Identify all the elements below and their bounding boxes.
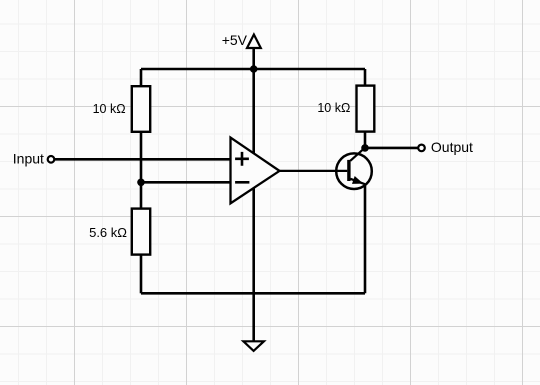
- wire inverting input: [141, 181, 231, 184]
- op-amp U1: [231, 138, 280, 204]
- wire left column to R1: [140, 69, 143, 86]
- svg-text:10 kΩ: 10 kΩ: [93, 102, 126, 116]
- wire op-amp V+: [252, 69, 255, 153]
- svg-text:Output: Output: [431, 139, 473, 155]
- wire +5V stub: [252, 48, 255, 70]
- transistor Q1: [280, 148, 372, 189]
- wire input: [54, 158, 230, 161]
- wire R2 top: [364, 69, 367, 86]
- wire op-amp output to base: [280, 170, 348, 172]
- node collector junction dot: [361, 144, 369, 152]
- wire R2 to collector node: [364, 132, 367, 148]
- wire bottom rail: [141, 292, 365, 295]
- wire op-amp V- to ground: [252, 188, 255, 341]
- wire divider chain R1 to R3: [140, 132, 143, 209]
- op-amp U1 inverting - marker: [235, 181, 249, 184]
- terminal Output: [418, 145, 425, 152]
- wire output: [365, 147, 418, 150]
- svg-text:+5V: +5V: [222, 32, 248, 48]
- transistor Q1 body circle: [336, 153, 372, 189]
- svg-text:10 kΩ: 10 kΩ: [317, 101, 350, 115]
- +5V supply symbol: [247, 35, 261, 49]
- transistor Q1 collector lead: [350, 148, 364, 161]
- wire emitter column: [364, 184, 367, 293]
- wire R3 to bottom rail: [140, 255, 143, 294]
- node +5V junction dot: [250, 65, 258, 73]
- ground: [243, 341, 264, 351]
- op-amp U1 triangle body: [231, 138, 280, 204]
- node inverting junction dot: [137, 179, 145, 187]
- resistor R3 5.6k: [132, 209, 150, 255]
- svg-text:5.6 kΩ: 5.6 kΩ: [89, 225, 127, 240]
- terminal Input: [48, 156, 55, 163]
- resistor R2 10k: [357, 86, 375, 132]
- transistor Q1 base bar: [347, 160, 350, 181]
- op-amp U1 non-inverting + marker: [235, 152, 249, 166]
- wire top rail: [141, 68, 365, 71]
- transistor Q1 emitter arrow: [352, 176, 363, 184]
- svg-text:Input: Input: [13, 150, 44, 166]
- transistor Q1 emitter lead: [350, 179, 365, 184]
- resistor R1 10k: [132, 86, 150, 132]
